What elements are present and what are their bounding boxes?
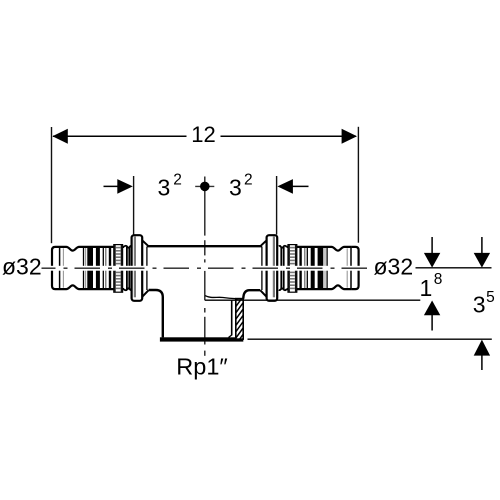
svg-text:8: 8 <box>434 271 443 288</box>
dimension 3.2: extension lines <box>133 176 135 235</box>
dimension 12: arrowheads <box>52 129 67 144</box>
right reference line at axis level <box>416 267 492 269</box>
dimension 3.2: right arrow <box>292 185 309 187</box>
svg-text:2: 2 <box>173 172 182 189</box>
vertical centerline (branch axis) <box>204 177 206 356</box>
right flange (mirrored) <box>260 235 277 301</box>
svg-text:12: 12 <box>191 122 215 147</box>
svg-text:Rp1″: Rp1″ <box>176 354 227 380</box>
svg-text:3: 3 <box>229 174 242 200</box>
left flange <box>132 235 149 301</box>
reference line socket bottom level <box>248 338 492 340</box>
svg-text:3: 3 <box>158 174 171 200</box>
dim 1.8 down arrow <box>431 237 433 254</box>
body bottom left + branch left wall <box>149 290 163 337</box>
dim 1.8 up arrow <box>424 301 440 316</box>
dimension 12: line <box>53 135 187 137</box>
right sleeve (mirrored) <box>279 245 359 293</box>
dimension 12: extension lines <box>51 127 53 243</box>
socket mouth wavy line <box>205 296 236 299</box>
socket bore edge <box>231 300 233 336</box>
reference line socket mouth level <box>205 299 420 301</box>
centerline white gap band through sleeves <box>50 266 362 271</box>
svg-text:2: 2 <box>244 172 253 189</box>
svg-text:ø32: ø32 <box>2 254 42 280</box>
horizontal centerline (pipe axis) <box>42 267 372 269</box>
svg-text:1: 1 <box>420 275 433 301</box>
dim 3.5 up arrow <box>474 340 490 356</box>
dimension 3.2: left arrow <box>104 185 121 187</box>
svg-text:5: 5 <box>486 289 495 306</box>
center dot node <box>195 185 214 187</box>
dim 3.5 down arrow <box>481 237 483 254</box>
svg-text:3: 3 <box>473 291 486 317</box>
left sleeve <box>52 245 132 293</box>
body top edge <box>147 245 262 247</box>
threaded wall (hatched) <box>234 286 247 361</box>
branch bottom face <box>160 337 243 341</box>
svg-text:ø32: ø32 <box>374 254 414 280</box>
body bottom right + corner to socket <box>243 290 260 299</box>
